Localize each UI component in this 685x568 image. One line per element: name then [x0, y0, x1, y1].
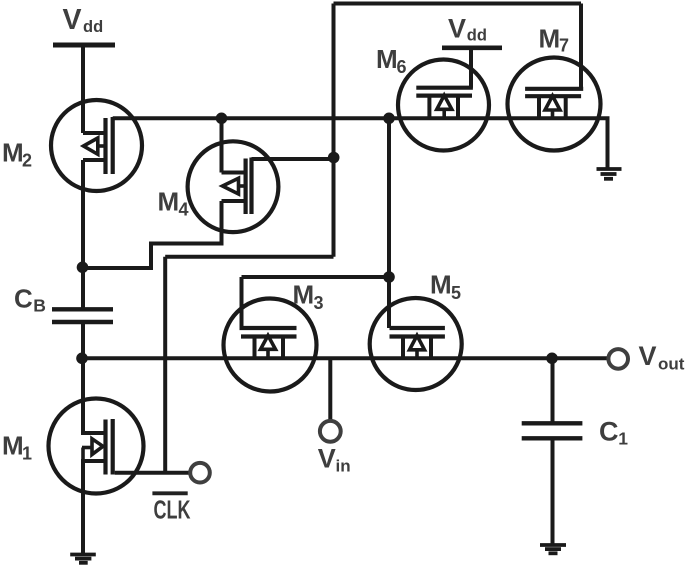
svg-text:M: M	[2, 431, 24, 461]
svg-text:V: V	[318, 444, 336, 474]
svg-text:M: M	[539, 24, 561, 54]
svg-text:M: M	[158, 187, 180, 217]
svg-text:4: 4	[179, 200, 189, 220]
svg-text:V: V	[63, 4, 82, 36]
svg-text:3: 3	[314, 293, 324, 313]
svg-text:M: M	[293, 280, 315, 310]
svg-text:2: 2	[22, 151, 32, 171]
svg-text:C: C	[14, 284, 33, 314]
svg-text:1: 1	[618, 429, 628, 449]
svg-text:5: 5	[451, 283, 461, 303]
svg-text:6: 6	[397, 57, 407, 77]
svg-text:C: C	[599, 416, 619, 446]
svg-text:V: V	[639, 341, 657, 371]
svg-text:M: M	[376, 44, 398, 74]
svg-text:dd: dd	[467, 27, 487, 45]
svg-text:B: B	[33, 296, 46, 316]
svg-text:dd: dd	[83, 18, 103, 36]
svg-text:in: in	[336, 457, 351, 476]
svg-text:7: 7	[559, 36, 569, 56]
svg-text:1: 1	[22, 444, 32, 464]
svg-text:CLK: CLK	[154, 495, 191, 525]
svg-text:V: V	[448, 14, 466, 44]
svg-text:out: out	[658, 355, 685, 374]
svg-text:M: M	[430, 270, 452, 300]
svg-text:M: M	[2, 138, 24, 168]
